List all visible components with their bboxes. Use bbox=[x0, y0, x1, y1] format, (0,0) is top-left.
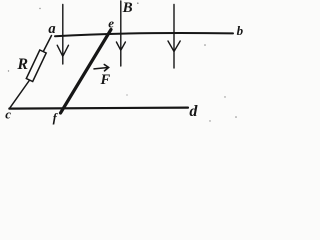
svg-text:c: c bbox=[5, 107, 11, 122]
svg-text:R: R bbox=[16, 56, 28, 73]
svg-text:b: b bbox=[237, 23, 244, 38]
svg-text:B: B bbox=[122, 0, 133, 16]
svg-text:F: F bbox=[100, 72, 111, 88]
svg-text:d: d bbox=[189, 103, 198, 120]
svg-text:e: e bbox=[108, 16, 114, 31]
svg-text:a: a bbox=[48, 21, 55, 37]
